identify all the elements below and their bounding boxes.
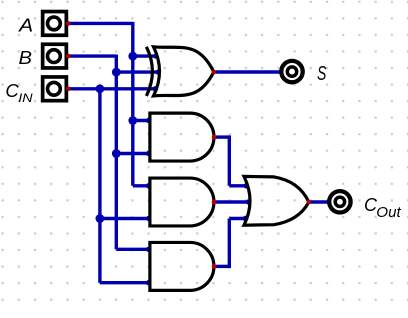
junction node B to AND1 (112, 149, 121, 158)
wire into OR top input (229, 184, 247, 187)
pin dot XOR1 output (212, 70, 217, 75)
input connector B (43, 44, 67, 68)
wire A branch to XOR top input (133, 54, 157, 57)
wire A vertical bus (131, 22, 134, 186)
wire B branch to AND3 top input (116, 248, 150, 251)
xor gate XOR1 back arc (146, 47, 152, 96)
wire AND1 to OR vertical (228, 135, 231, 185)
wire B branch to AND1 bottom input (116, 152, 150, 155)
wire XOR output to S (214, 70, 282, 73)
svg-text:Out: Out (376, 204, 401, 221)
and gate AND1 (A·B) (150, 113, 214, 161)
wire C branch to AND2 bottom input (100, 217, 150, 220)
and gate AND3 (B·C) (150, 242, 214, 290)
pin dot OR1 output (307, 200, 312, 205)
xor gate XOR1 (sum) body (154, 47, 214, 96)
wire C horizontal to XOR bottom input (68, 87, 156, 90)
output connector C_Out (329, 191, 350, 212)
junction node A to XOR top (128, 52, 137, 61)
pin dot input B (66, 54, 71, 59)
wire A branch to AND1 top input (133, 119, 150, 122)
wire B vertical bus (115, 55, 118, 250)
wire AND3 output horizontal (214, 265, 229, 268)
svg-text:IN: IN (18, 91, 32, 105)
svg-text:A: A (18, 15, 33, 36)
input connector C_IN (43, 77, 67, 101)
wire B horizontal from input B pin (68, 54, 116, 57)
wire A horizontal from input A pin (68, 22, 132, 25)
junction node B to XOR middle (112, 68, 121, 77)
wire C branch to AND3 bottom input (100, 281, 150, 284)
junction node C branch (96, 84, 105, 93)
pin dot input A (66, 21, 71, 26)
wire OR output to C_Out (309, 200, 330, 203)
or gate OR1 (carry) (244, 176, 309, 225)
svg-text:B: B (19, 47, 33, 68)
junction node C to AND2 (96, 214, 105, 223)
svg-text:S: S (317, 62, 327, 85)
wire A branch to AND2 top input (133, 184, 150, 187)
wire B branch to XOR middle input (116, 70, 159, 73)
junction node A to AND1 (128, 116, 137, 125)
wire into OR bottom input (229, 217, 247, 220)
wire AND1 output horizontal (214, 135, 229, 138)
pin dot input C_IN (66, 87, 71, 92)
pin dot AND1 output (212, 135, 217, 140)
pin dot AND3 output (212, 264, 217, 269)
wire AND2 output to OR middle input (214, 200, 250, 203)
wire AND3 to OR vertical (228, 219, 231, 269)
pin dot AND2 output (212, 200, 217, 205)
wire C vertical bus (98, 89, 101, 283)
and gate AND2 (A·C) (150, 178, 214, 226)
input connector A (43, 12, 67, 36)
output connector S (281, 61, 302, 82)
